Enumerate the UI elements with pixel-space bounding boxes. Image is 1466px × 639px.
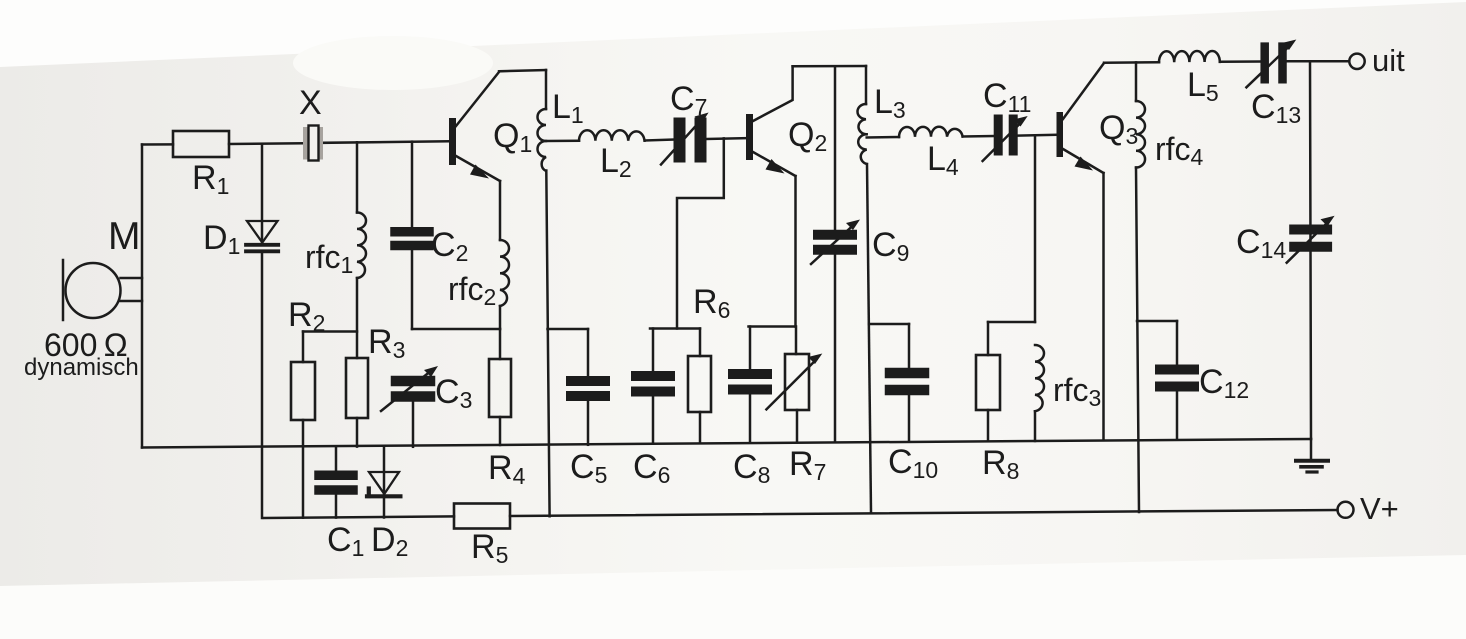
variable capacitor C11	[983, 116, 1028, 161]
wire: L4 to C11	[963, 135, 994, 138]
inductor L1 (tapped)	[538, 109, 550, 516]
capacitor C10	[890, 324, 924, 440]
microphone M	[63, 260, 142, 320]
wire: Q1 collector top rail	[499, 70, 546, 71]
wire: V+ rail left of R5	[264, 516, 454, 518]
svg-text:M: M	[108, 215, 141, 258]
variable capacitor C3	[381, 366, 438, 447]
rf choke rfc3	[1035, 345, 1044, 441]
wire: R1 to crystal X	[229, 142, 304, 145]
variable capacitor C14	[1287, 216, 1335, 263]
wire: L1 tap to L2	[546, 140, 579, 143]
rf choke rfc4	[1136, 62, 1145, 512]
wire: C13 to uit terminal	[1287, 60, 1349, 63]
resistor R5	[454, 504, 510, 529]
wire: Q2 emitter down	[794, 176, 797, 327]
capacitor C1	[319, 447, 353, 518]
wire: emitter node jog (C2/C3 to rfc2/R4)	[412, 328, 500, 331]
svg-text:V+: V+	[1360, 491, 1399, 526]
wire: L3 tap to L4	[867, 136, 899, 139]
capacitor C12	[1160, 321, 1194, 439]
inductor L4	[899, 127, 963, 137]
variable capacitor C9	[811, 66, 860, 440]
wire: mic to R1 and down to ground rail	[141, 145, 144, 448]
wire: L2 to C7	[645, 138, 674, 141]
variable capacitor C7	[661, 113, 709, 165]
wire: C6/R6 junction bar	[650, 327, 700, 330]
rf choke rfc1	[357, 142, 366, 358]
wire: ground rail	[142, 439, 1311, 448]
variable capacitor C13	[1246, 40, 1296, 88]
top white band	[0, 0, 1466, 67]
transistor Q1	[449, 72, 500, 181]
wire: R2 top jog	[303, 330, 357, 333]
capacitor C6	[636, 329, 670, 443]
inductor L2	[579, 130, 645, 141]
rf choke rfc2	[500, 181, 509, 329]
wire: C11 to Q3 base	[1018, 134, 1057, 137]
wire: Q2 collector top rail	[793, 65, 866, 68]
resistor R6	[688, 329, 711, 443]
resistor R2	[291, 332, 315, 518]
light blotch near X label	[293, 36, 493, 90]
capacitor C5	[548, 329, 606, 445]
transistor Q3	[1057, 63, 1105, 173]
diode D2 (zener)	[367, 447, 400, 518]
wire: crystal X to Q1 base	[323, 141, 449, 143]
resistor R1	[173, 131, 229, 157]
wire: R6 feed drop from base wire	[677, 138, 724, 328]
wire: C12 top jog from rfc4 line	[1137, 320, 1177, 323]
wire: C10 top jog from L3 line	[869, 323, 909, 326]
terminal V+	[1338, 502, 1354, 518]
transistor Q2	[746, 66, 796, 176]
ground symbol	[1296, 439, 1328, 472]
svg-text:dynamisch: dynamisch	[24, 354, 139, 381]
wire: C7 to Q2 base	[707, 137, 747, 140]
capacitor C8	[733, 327, 767, 442]
diode D1 (varicap style)	[246, 144, 278, 518]
wire: Q3 collector top rail	[1104, 61, 1159, 64]
wire: L5 to C13	[1220, 60, 1261, 63]
wire: output junction down to ground	[1310, 61, 1311, 439]
resistor R3	[346, 358, 368, 447]
svg-text:X: X	[299, 84, 322, 122]
inductor L3 (tapped)	[858, 66, 872, 512]
variable resistor R7	[766, 327, 822, 442]
wire: top rail down to L1	[545, 70, 548, 109]
inductor L5	[1159, 51, 1220, 62]
wire: V+ rail right of R5	[510, 510, 1338, 516]
wire: Q3 emitter down to ground rail	[1102, 173, 1105, 440]
capacitor C2	[395, 142, 429, 329]
wire: R1 left lead	[142, 143, 173, 146]
crystal X	[303, 126, 323, 161]
wire: rfc3/R8 feed drop from base wire	[1034, 135, 1037, 322]
resistor R4	[489, 329, 511, 445]
wire: C8/R7 junction bar	[749, 325, 796, 328]
resistor R8	[976, 322, 1000, 441]
terminal uit	[1349, 54, 1364, 69]
bottom white band	[0, 555, 1466, 639]
svg-text:uit: uit	[1372, 43, 1405, 78]
wire: R8 top jog	[988, 321, 1035, 324]
